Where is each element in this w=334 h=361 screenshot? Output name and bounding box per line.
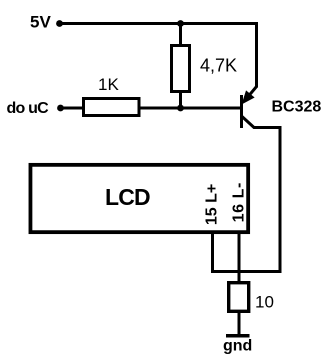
node: do uC terminal dot [57, 105, 64, 112]
wire: 5V rail from terminal to top-right corner, down to emitter [60, 24, 257, 88]
svg-text:LCD: LCD [105, 184, 150, 210]
junction dot base net [177, 105, 184, 112]
svg-text:5V: 5V [30, 13, 51, 32]
svg-text:15 L+: 15 L+ [204, 184, 221, 225]
wire: resistor 10 to ground [238, 312, 241, 335]
resistor 10 body [229, 283, 249, 312]
wire: LCD pin 15 down to junction rail [211, 234, 214, 273]
transistor Q1 emitter line [247, 87, 257, 99]
node: 5V terminal dot [56, 20, 63, 27]
wire: base net from do uC terminal to transistor base [61, 107, 241, 110]
resistor 1K body [84, 99, 140, 116]
transistor Q1 BC328 base bar [240, 95, 243, 128]
svg-text:1K: 1K [98, 75, 119, 94]
LCD module box [30, 165, 248, 232]
resistor 4,7K body [172, 46, 190, 92]
wire: LCD pin 16 down to resistor 10 [238, 234, 241, 282]
svg-text:4,7K: 4,7K [200, 56, 237, 76]
wire: 5V rail to 4,7K top [179, 22, 182, 45]
transistor Q1 emitter arrowhead (PNP, points into base) [243, 92, 254, 103]
svg-text:gnd: gnd [223, 338, 252, 355]
svg-text:16 L-: 16 L- [231, 182, 248, 222]
transistor Q1 collector line and wire down right side [213, 117, 281, 272]
wire: 4,7K bottom to base net [179, 92, 182, 108]
ground symbol bar [226, 334, 250, 338]
svg-text:BC328: BC328 [272, 99, 322, 116]
junction dot on 5V rail above 4,7K [177, 20, 184, 27]
svg-text:do uC: do uC [7, 100, 50, 117]
svg-text:10: 10 [255, 293, 274, 312]
